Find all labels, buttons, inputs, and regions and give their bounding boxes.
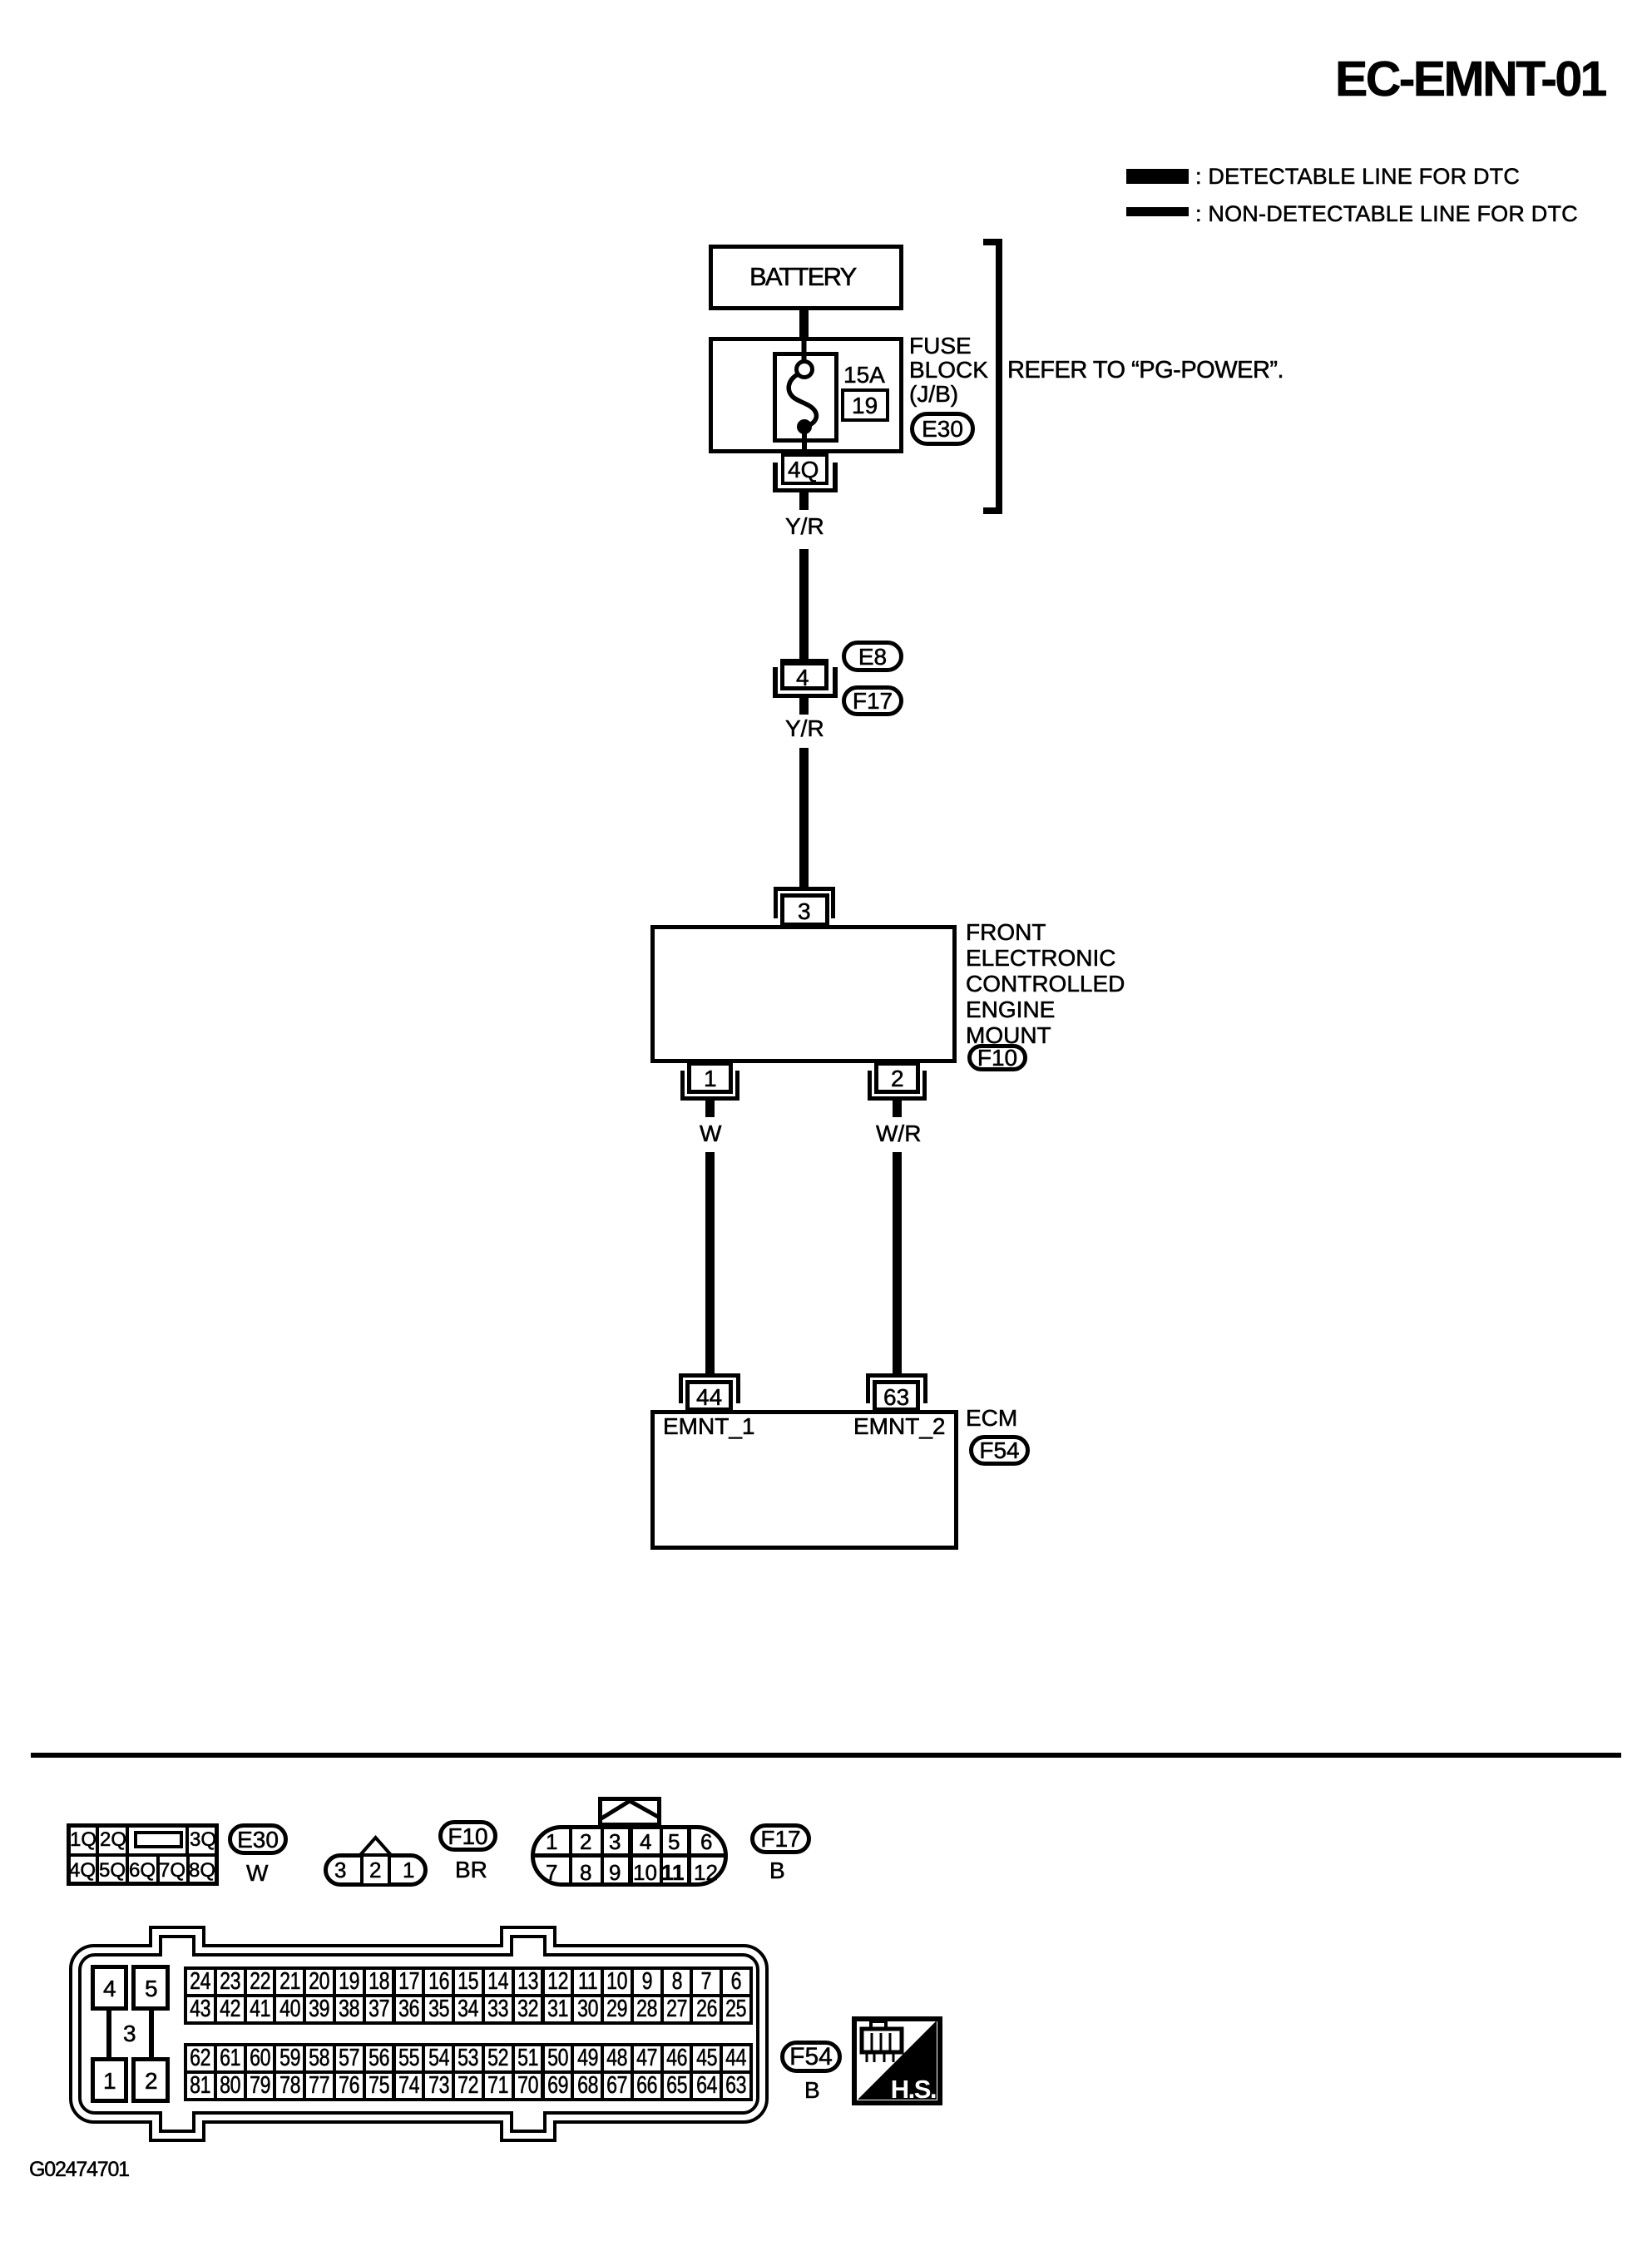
connector F10 oval label bbox=[438, 1820, 497, 1852]
connector 1 bracket bbox=[680, 1071, 685, 1101]
connector 4Q box bbox=[781, 453, 828, 485]
E30 pin labels bbox=[70, 1830, 96, 1850]
F54 color B bbox=[804, 2079, 820, 2102]
wire to engine mount bbox=[799, 748, 809, 887]
ECM small pin 4 bbox=[91, 1965, 128, 2011]
connector 63 box bbox=[873, 1380, 920, 1412]
svg-text:H.S.: H.S. bbox=[891, 2075, 936, 2104]
fuse value 15A bbox=[843, 364, 885, 387]
legend non-detectable text bbox=[1195, 203, 1578, 225]
connector F17 oval label bbox=[750, 1823, 811, 1854]
ECM connector bottom tab 2 bbox=[500, 2120, 556, 2142]
connector 3 bracket bbox=[774, 887, 835, 891]
connector E30 oval label bbox=[228, 1823, 288, 1855]
ECM 86-pin grid top block bbox=[184, 1966, 753, 2025]
F17 pin labels row2 bbox=[546, 1862, 557, 1883]
legend detectable text bbox=[1195, 166, 1520, 188]
ECM small pin 2 bbox=[131, 2057, 170, 2103]
connector F54 oval label bbox=[780, 2041, 842, 2073]
connector 44 bracket bbox=[679, 1373, 740, 1378]
bracket refer bbox=[996, 239, 1002, 514]
fuse F 15A symbol bbox=[761, 337, 857, 458]
title EC-EMNT-01 bbox=[1335, 55, 1605, 104]
ECM small pin 5 bbox=[131, 1965, 170, 2011]
legend non-detectable bar bbox=[1126, 207, 1189, 216]
ECM box bbox=[650, 1410, 958, 1550]
wire pin1 to ECM44 bbox=[705, 1152, 715, 1373]
refer note bbox=[1007, 359, 1284, 383]
wire label Y/R bbox=[785, 717, 824, 740]
connector E30 oval bbox=[910, 412, 975, 446]
F17 pin labels row1 bbox=[546, 1831, 557, 1853]
wire label Y/R bbox=[785, 515, 824, 538]
battery box bbox=[709, 245, 903, 310]
ECM connector top tab 2 bbox=[500, 1926, 556, 1947]
fuse block box E30 bbox=[709, 337, 903, 453]
inline connector bracket bbox=[773, 667, 778, 698]
legend detectable bar bbox=[1126, 169, 1189, 184]
fuse number 19 box bbox=[841, 388, 889, 422]
wire pin2 to ECM63 bbox=[893, 1152, 902, 1373]
separator line bbox=[31, 1753, 1621, 1758]
connector F17 oval bbox=[842, 685, 903, 716]
F10 tab triangle bbox=[358, 1834, 393, 1855]
connector 4Q bracket bbox=[773, 463, 778, 492]
engine mount label bbox=[966, 919, 1125, 1048]
ECM big connector outer bbox=[69, 1944, 769, 2124]
connector 63 bracket bbox=[866, 1373, 927, 1378]
battery label bbox=[749, 264, 856, 289]
fuse block label bbox=[909, 334, 988, 406]
connector F10 pin body bbox=[324, 1853, 428, 1887]
ECM 86-pin grid bot block bbox=[184, 2043, 753, 2101]
ECM pin name EMNT_1 bbox=[663, 1415, 754, 1438]
F10 color BR bbox=[455, 1858, 487, 1882]
ECM pin name EMNT_2 bbox=[853, 1415, 945, 1438]
connector E8 oval bbox=[842, 641, 903, 672]
F10 cell 2 box bbox=[360, 1853, 391, 1887]
wire below connector 4 bbox=[799, 698, 809, 715]
E30 slot rect bbox=[134, 1831, 183, 1848]
fuse number 19 bbox=[852, 394, 878, 418]
ECM label bbox=[966, 1407, 1017, 1430]
H.S. icon bbox=[852, 2016, 942, 2105]
connector 2 box bbox=[874, 1061, 920, 1094]
connector 2 bracket bbox=[868, 1071, 872, 1101]
ECM connector top tab 1 bbox=[149, 1926, 205, 1947]
connector E30 pin grid bbox=[67, 1823, 219, 1886]
connector 3 box bbox=[780, 893, 829, 927]
figure number bbox=[29, 2159, 129, 2180]
ECM connector bottom tab 1 bbox=[149, 2120, 205, 2142]
connector F17 tab bbox=[598, 1797, 661, 1827]
front electronic controlled engine mount box bbox=[650, 925, 957, 1063]
ECM small pin 3 bbox=[106, 2011, 111, 2057]
E30 color W bbox=[246, 1862, 268, 1885]
connector F17 pin body bbox=[531, 1825, 728, 1887]
wire label W/R bbox=[876, 1122, 921, 1145]
ECM small pin 1 bbox=[91, 2057, 128, 2103]
connector 44 box bbox=[685, 1380, 733, 1412]
F17 color B bbox=[769, 1859, 785, 1882]
wire pin1 stub bbox=[705, 1101, 715, 1117]
wire 4Q down bbox=[799, 492, 809, 510]
connector F10 oval bbox=[967, 1044, 1027, 1071]
connector 1 box bbox=[687, 1061, 733, 1094]
wire label W bbox=[700, 1122, 721, 1145]
wire battery to fuse block bbox=[799, 310, 809, 337]
F10 pin labels bbox=[334, 1859, 346, 1881]
wire pin2 stub bbox=[893, 1101, 902, 1117]
wire to E8/F17 connector bbox=[799, 549, 809, 660]
inline connector 4 box bbox=[780, 659, 828, 690]
connector F54 oval bbox=[969, 1435, 1030, 1466]
